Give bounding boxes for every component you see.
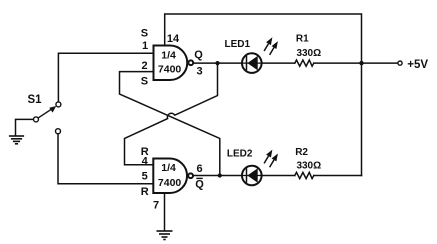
svg-text:LED2: LED2	[227, 148, 253, 159]
svg-text:Q: Q	[194, 49, 203, 61]
svg-text:7: 7	[153, 200, 159, 212]
svg-text:2: 2	[141, 60, 147, 72]
svg-text:4: 4	[142, 155, 149, 167]
svg-text:LED1: LED1	[225, 39, 251, 50]
svg-text:7400: 7400	[158, 63, 182, 75]
svg-text:1/4: 1/4	[161, 50, 176, 62]
svg-text:S1: S1	[28, 94, 43, 106]
svg-text:R: R	[141, 186, 149, 198]
svg-text:3: 3	[196, 66, 202, 78]
svg-text:Q: Q	[195, 179, 204, 191]
svg-text:+5V: +5V	[407, 59, 428, 71]
svg-text:R1: R1	[296, 34, 309, 45]
svg-text:S: S	[141, 28, 148, 40]
svg-text:330Ω: 330Ω	[296, 161, 321, 172]
svg-text:1: 1	[142, 40, 148, 52]
svg-text:6: 6	[196, 163, 202, 175]
svg-text:330Ω: 330Ω	[296, 48, 321, 59]
svg-text:7400: 7400	[158, 177, 182, 189]
svg-text:5: 5	[142, 171, 148, 183]
svg-text:1/4: 1/4	[161, 162, 176, 174]
svg-text:S: S	[141, 76, 148, 88]
svg-text:14: 14	[167, 33, 180, 45]
svg-text:R2: R2	[295, 147, 308, 158]
